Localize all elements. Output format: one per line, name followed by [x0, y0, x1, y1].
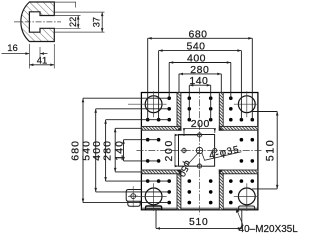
left dim chain: 400 [106, 120, 170, 181]
bottom tab below tie-bar left [146, 206, 162, 210]
section top edge extension line [54, 2, 76, 7]
left dim chain: 140 [124, 140, 160, 161]
side boss lower tab [128, 201, 140, 206]
hatched band horizontal bottom-right segment [219, 170, 258, 174]
tie-bar hole top-right [238, 96, 255, 113]
svg-text:16: 16 [7, 43, 18, 54]
top chain arrowheads [148, 37, 253, 86]
ejector hole right [213, 148, 217, 152]
plate bottom inner edge line [141, 207, 258, 209]
svg-text:540: 540 [186, 41, 205, 53]
top dim chain: 680 [148, 38, 253, 120]
svg-text:200: 200 [163, 139, 175, 162]
hatched band vertical left bottom segment [177, 170, 181, 210]
hatched band horizontal bottom-left segment [141, 170, 181, 174]
svg-text:140: 140 [113, 140, 125, 161]
hatched band horizontal top-right segment [219, 126, 258, 130]
svg-text:280: 280 [190, 64, 209, 76]
band corner arrows [177, 127, 181, 131]
svg-text:140: 140 [189, 75, 208, 87]
svg-text:510: 510 [189, 217, 209, 228]
label phi50 leader [187, 152, 199, 165]
hatched band vertical right bottom segment [219, 170, 223, 210]
svg-text:40–M20X35L: 40–M20X35L [239, 224, 298, 234]
hole cross ticks [181, 132, 218, 169]
dimension 22 line [77, 16, 79, 29]
dimension 16 line with outside arrows [2, 53, 48, 55]
dimension 41 line [29, 64, 54, 66]
top dim chain: 280 [179, 74, 221, 93]
ejector hole bottom [197, 164, 201, 168]
plate horizontal centerline [137, 149, 264, 151]
M20 tapped holes (40x) [146, 96, 254, 204]
left dim chain: 540 [96, 109, 170, 192]
tie-bar hole top-left [128, 91, 258, 211]
section view centerline [14, 21, 61, 23]
note leader 40-M20X35L [236, 209, 243, 226]
svg-text:400: 400 [187, 53, 206, 65]
svg-text:680: 680 [188, 28, 207, 40]
left chain arrowheads [82, 98, 125, 202]
dimension 200 horizontal (top of square) [184, 129, 215, 136]
svg-text:510: 510 [265, 139, 277, 161]
bottom dim 510 [156, 210, 242, 229]
dimension 37 line [101, 12, 103, 32]
locating hole (phi50) center [182, 133, 217, 168]
tie-bar hole bottom-right [238, 188, 255, 205]
dimension 200 vertical (left of square) [175, 135, 197, 166]
right dim 510 [252, 112, 277, 189]
central square [179, 135, 215, 167]
bottom tab below tie-bar right [239, 206, 255, 210]
svg-text:41: 41 [37, 55, 48, 66]
section view: platen boss outline [21, 2, 54, 42]
top dim chain: 540 [159, 51, 242, 121]
left dim chain: 280 [115, 128, 142, 172]
hatched band vertical right top segment [219, 93, 223, 131]
top dim chain: 400 [169, 63, 231, 100]
svg-text:22: 22 [68, 17, 78, 27]
left dim chain: 680 [83, 98, 170, 202]
ejector hole left [182, 148, 186, 152]
svg-text:200: 200 [191, 118, 210, 130]
label 4-phi35 leader [202, 152, 242, 161]
svg-text:37: 37 [92, 17, 102, 27]
top dim chain: 140 [189, 85, 210, 120]
svg-text:280: 280 [101, 140, 113, 161]
hatched band horizontal top-left segment [141, 126, 181, 130]
dimension 22 extension lines [55, 16, 81, 29]
hatched band vertical left top segment [141, 93, 258, 210]
plate vertical centerline [199, 88, 201, 215]
tie-bar hole bottom-left [145, 188, 162, 205]
side boss hole [131, 194, 136, 199]
side boss on left edge [126, 186, 141, 207]
platen plate outline [141, 93, 258, 210]
dimension 16/41 extension lines [29, 44, 54, 69]
ejector hole top [197, 133, 201, 137]
dimension 37 extension lines [55, 12, 105, 32]
